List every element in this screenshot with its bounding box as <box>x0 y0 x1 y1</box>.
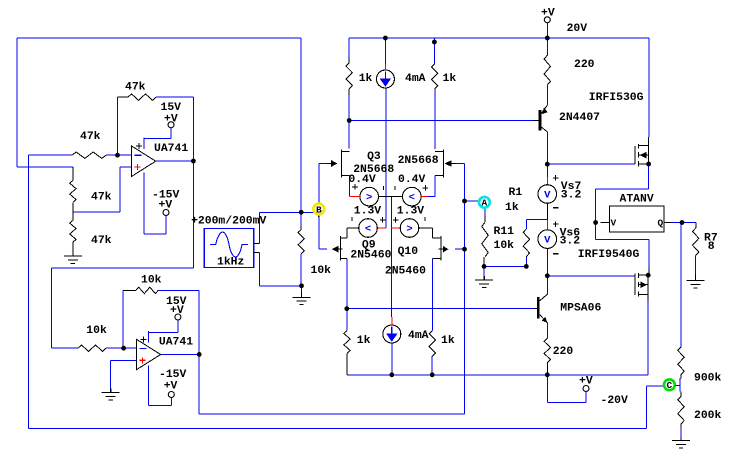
resistor 220 lower <box>544 338 550 374</box>
svg-text:4mA: 4mA <box>405 73 426 85</box>
svg-text:MPSA06: MPSA06 <box>560 303 601 315</box>
svg-text:>: > <box>366 192 372 204</box>
plus mark 0.4V left <box>352 184 358 190</box>
resistor R1 1k <box>523 229 529 257</box>
lead ATANV V port <box>601 222 610 224</box>
svg-text:10k: 10k <box>86 325 107 337</box>
label Q10 <box>398 246 419 258</box>
wire op1 inverting input <box>28 154 72 156</box>
lead red 1.3V right plus <box>392 227 401 229</box>
resistor R7 8 <box>693 223 699 256</box>
wire 1k to Q3 drain <box>348 38 350 58</box>
wire Q9 drain <box>346 258 348 308</box>
resistor 47k divider lower <box>70 212 76 242</box>
junction 1k Q5 load top <box>432 40 437 45</box>
op-amp U2 UA741 <box>137 331 161 378</box>
resistor 47k op1 feedback <box>118 94 157 100</box>
label 20V <box>567 23 588 35</box>
transistor M2 IRFI9540G <box>635 273 648 297</box>
svg-text:<: < <box>409 192 415 204</box>
label 900k <box>694 373 722 385</box>
label R7 <box>704 233 718 245</box>
svg-text:2N5460: 2N5460 <box>385 266 426 278</box>
lead M2 source black <box>648 268 650 276</box>
junction R11 ground node <box>482 264 487 269</box>
plus mark 0.4V right <box>423 185 429 191</box>
svg-text:V: V <box>544 190 551 202</box>
junction Q3 drain node <box>347 118 352 123</box>
wire net-B top-left loop <box>17 38 301 226</box>
label Q9 type 2N5460 <box>350 250 391 262</box>
svg-text:1.3V: 1.3V <box>354 205 382 217</box>
wire R1 top lead <box>526 220 528 229</box>
wire +20V rail <box>349 38 649 137</box>
transistor Q3 2N5668 <box>327 150 349 178</box>
svg-text:3.2: 3.2 <box>561 190 582 202</box>
power +V supply U2 negative <box>168 392 174 398</box>
label 10k node B <box>311 265 332 277</box>
svg-text:3.2: 3.2 <box>560 236 581 248</box>
wire Vs6 bottom lead <box>546 249 548 295</box>
label -15V U1 <box>152 190 180 202</box>
resistor 200k <box>678 392 684 429</box>
junction -20V rail 220 <box>545 372 550 377</box>
wire 4mA source 1 top <box>384 38 386 65</box>
junction M2 source-body <box>646 273 651 278</box>
svg-text:220: 220 <box>574 59 595 71</box>
label Q3 <box>367 151 381 163</box>
resistor 10k op2 input <box>78 345 106 351</box>
svg-text:-15V: -15V <box>152 190 180 202</box>
source V 0.4V left <box>360 187 379 206</box>
signal generator V1 box <box>204 228 254 267</box>
current source I2 4mA <box>383 325 401 343</box>
wire op2 output <box>161 353 200 355</box>
label 10k op2 input <box>86 325 107 337</box>
svg-text:IRFI530G: IRFI530G <box>589 92 644 104</box>
wire op1 feedback vertical <box>117 97 119 155</box>
junction R1 ground node <box>524 264 529 269</box>
resistor 900k <box>678 347 684 378</box>
svg-text:200k: 200k <box>694 410 722 422</box>
wire 200k to ground <box>680 427 682 437</box>
source Vs7 3.2 <box>538 185 557 204</box>
junction node B tap <box>299 210 304 215</box>
lead black Vs7 minus <box>546 203 548 219</box>
svg-text:0.4V: 0.4V <box>398 174 426 186</box>
resistor 47k op1 input <box>72 152 106 158</box>
wire Q3 source <box>349 176 351 197</box>
ground below 47k divider <box>64 242 82 263</box>
svg-text:Q10: Q10 <box>398 246 419 258</box>
wire U2 V+ pin <box>149 320 178 333</box>
pin Q ATANV <box>658 218 664 229</box>
wire op1 feedback to output <box>51 97 193 348</box>
resistor 1k Q10 load <box>429 331 435 356</box>
node B marker <box>313 204 324 216</box>
transistor Q2 MPSA06 <box>534 294 547 322</box>
svg-text:IRFI9540G: IRFI9540G <box>578 249 640 261</box>
lead red Vs7 plus <box>546 177 548 185</box>
wire ATANV V to IRFI9540G <box>596 223 649 268</box>
source Vs6 3.2 <box>538 230 557 249</box>
wire -20V supply tap <box>547 375 586 403</box>
svg-text:47k: 47k <box>91 192 112 204</box>
wire op2 noninverting input <box>111 360 137 362</box>
label Vs7 <box>561 181 582 193</box>
wire R11 ground lead <box>483 266 485 276</box>
wire 0.4V mid to 1.3V right <box>391 196 393 316</box>
ground below 200k <box>672 437 690 448</box>
junction -20V rail 4mA2 <box>389 372 394 377</box>
lead black 0.4V middle link <box>379 195 403 197</box>
svg-text:47k: 47k <box>125 82 146 94</box>
plus mark Vs7 <box>553 175 559 181</box>
wire 2N4407 collector node <box>546 132 548 164</box>
wire Q10 gate <box>455 248 465 250</box>
lead M1 drain black <box>648 137 650 145</box>
svg-text:15V: 15V <box>166 296 187 308</box>
svg-text:V: V <box>544 235 551 247</box>
power +V supply U2 positive <box>175 314 181 320</box>
label 15V U2 <box>166 296 187 308</box>
label 1k Q10 load <box>441 335 455 347</box>
svg-text:220: 220 <box>553 346 574 358</box>
svg-text:Q3: Q3 <box>367 151 381 163</box>
plus mark 1.3V right <box>393 217 399 223</box>
svg-text:1k: 1k <box>441 335 455 347</box>
wire R1 bottom lead <box>525 257 527 267</box>
label Q5 type 2N5668 <box>398 155 439 167</box>
svg-text:C: C <box>667 380 673 391</box>
label R1 <box>509 187 523 199</box>
label MPSA06 <box>560 303 601 315</box>
junction Q9 drain node <box>344 306 349 311</box>
junction M1 source-body <box>646 162 651 167</box>
wire net-B left vertical <box>17 38 73 167</box>
label ATANV <box>620 193 654 205</box>
wire op2 feedback to output <box>158 164 464 414</box>
wire Vs7 top lead <box>546 164 548 177</box>
resistor 1k Q5 load <box>431 64 437 89</box>
label 10k op2 feedback <box>141 275 162 287</box>
wire source output to node B <box>260 212 319 243</box>
signal generator sine wave <box>210 232 248 257</box>
label 220 lower <box>553 346 574 358</box>
svg-text:15V: 15V <box>161 102 182 114</box>
svg-text:1k: 1k <box>359 73 373 85</box>
svg-text:+V: +V <box>164 380 178 392</box>
label 47k divider lower <box>91 235 112 247</box>
wire 1k right bottom lead <box>431 356 433 375</box>
wire -20V rail <box>347 374 648 376</box>
lead red I1 <box>384 65 386 70</box>
wire Q5 source <box>428 176 435 197</box>
wire 900k top lead <box>680 223 682 348</box>
wire 1k to Q5 drain <box>433 38 435 64</box>
minus mark Vs7 <box>553 207 559 209</box>
label 1k Q9 load <box>357 335 371 347</box>
wire Q9 gate <box>319 248 327 250</box>
wire R1 to Vs junction <box>527 219 548 221</box>
svg-text:10k: 10k <box>494 240 515 252</box>
tick minus 0.4V right <box>394 186 396 190</box>
current source I1 4mA <box>376 70 394 88</box>
label +V U2 positive <box>170 305 184 317</box>
svg-text:R1: R1 <box>509 187 523 199</box>
label 4mA I1 <box>405 73 426 85</box>
plus mark Vs6 <box>553 221 559 227</box>
wire source return to ground <box>260 253 302 286</box>
label 1kHz <box>217 257 244 269</box>
wire Q3 gate <box>319 163 328 165</box>
label Vs7 value 3.2 <box>561 190 582 202</box>
resistor 1k Q9 load <box>344 331 350 375</box>
svg-text:2N5460: 2N5460 <box>350 250 391 262</box>
wire MPSA06 emitter lead <box>546 323 548 339</box>
svg-text:10k: 10k <box>311 265 332 277</box>
label Vs6 <box>560 228 581 240</box>
op-amp U1 UA741 <box>132 138 156 185</box>
svg-text:2N4407: 2N4407 <box>559 112 600 124</box>
wire IRFI530G source to ATANV <box>596 164 649 223</box>
lead black 1.3V left minus <box>347 228 358 238</box>
junction op1 inverting node <box>115 153 120 158</box>
transistor Q10 2N5460 <box>433 236 448 260</box>
svg-text:V: V <box>611 218 617 229</box>
lead red Vs6 plus <box>546 220 548 230</box>
svg-text:10k: 10k <box>141 275 162 287</box>
svg-text:1.3V: 1.3V <box>397 205 425 217</box>
wire op2 feedback vertical <box>122 290 124 348</box>
label -15V U2 <box>159 369 187 381</box>
svg-text:1k: 1k <box>357 335 371 347</box>
lead red 0.4V right plus <box>421 195 428 197</box>
minus mark Vs6 <box>553 253 559 255</box>
label R11 value 10k <box>494 240 515 252</box>
node A marker <box>479 197 490 209</box>
svg-text:A: A <box>482 198 488 209</box>
svg-text:2N5668: 2N5668 <box>398 155 439 167</box>
wire 10k bottom lead <box>300 254 302 291</box>
resistor 220 upper <box>544 55 550 85</box>
label Q3 type 2N5668 <box>353 164 394 176</box>
wire U1 V+ pin <box>144 128 171 139</box>
label 47k op1 input <box>80 131 101 143</box>
wire R11 R1 ground net <box>484 265 526 267</box>
lead node C right stub <box>676 378 680 392</box>
junction -20V rail 1k <box>430 372 435 377</box>
label 1.3V right <box>397 205 425 217</box>
wire Q5 gate <box>455 163 465 165</box>
lead M2 drain black <box>647 295 649 301</box>
svg-text:1k: 1k <box>505 202 519 214</box>
ground op2 noninverting <box>102 389 120 400</box>
label U1 <box>154 143 188 155</box>
label 2N4407 <box>559 112 600 124</box>
resistor R11 10k <box>482 209 488 267</box>
label 15V U1 <box>161 102 182 114</box>
transistor Q1 2N4407 <box>533 105 548 132</box>
ground below R7 <box>687 274 705 288</box>
power +V -20V supply <box>583 386 589 392</box>
power +V supply U1 positive <box>168 122 174 128</box>
lead node B tick <box>318 214 320 217</box>
wire 4mA source 2 bottom <box>391 343 393 375</box>
junction op1 output node <box>191 159 196 164</box>
wire 220 top lead <box>546 38 548 55</box>
wire op1 inverting input right <box>106 154 132 156</box>
junction source ground node <box>299 283 304 288</box>
power +V 20V supply <box>544 17 550 23</box>
svg-text:1kHz: 1kHz <box>217 257 244 269</box>
wire IRFI9540G gate <box>547 275 635 277</box>
label U2 <box>159 337 193 349</box>
lead red 1.3V left plus <box>378 227 387 229</box>
wire R7 bottom lead <box>695 256 697 275</box>
junction op2 output node <box>197 352 202 357</box>
wire 4mA source 1 output <box>385 88 387 228</box>
wire MPSA06 base wire <box>347 308 534 310</box>
label +200m/200mV <box>191 216 266 228</box>
lead red 0.4V left plus <box>350 195 360 197</box>
label 1.3V left <box>354 205 382 217</box>
source V 1.3V left <box>359 219 378 238</box>
label Q9 <box>362 240 376 252</box>
svg-text:0.4V: 0.4V <box>348 174 376 186</box>
wire Q3 drain <box>348 95 350 149</box>
wire IRFI530G gate <box>547 163 635 165</box>
label 47k divider upper <box>91 192 112 204</box>
wire node B gates vertical <box>318 164 320 250</box>
wire op1 noninverting input <box>73 167 132 212</box>
svg-text:1k: 1k <box>443 73 457 85</box>
wire IRFI9540G drain to rail <box>647 301 649 375</box>
resistor 10k node B <box>298 226 304 254</box>
power +V supply U1 negative <box>163 210 169 216</box>
wire 220 to 2N4407 emitter <box>546 85 548 105</box>
svg-text:47k: 47k <box>80 131 101 143</box>
svg-text:4mA: 4mA <box>408 330 429 342</box>
resistor 1k Q3 load <box>346 58 352 95</box>
node C marker <box>664 379 675 391</box>
wire Q3 drain to 2N4407 base <box>349 120 533 122</box>
label IRFI9540G <box>578 249 640 261</box>
svg-text:+V: +V <box>541 8 555 20</box>
wire op2 inverting input <box>106 347 137 349</box>
wire +20V supply lead <box>546 23 548 38</box>
wire node-C feedback bottom rail <box>28 155 663 428</box>
junction op2 inverting node <box>121 346 126 351</box>
label R1 value 1k <box>505 202 519 214</box>
wire 1k left to -20V rail <box>346 309 348 331</box>
source V 0.4V right <box>403 187 422 206</box>
label Q10 type 2N5460 <box>385 266 426 278</box>
svg-text:47k: 47k <box>91 235 112 247</box>
wire ATANV Q node <box>670 223 696 229</box>
transistor M1 IRFI530G <box>635 144 649 167</box>
wire Q5 drain <box>434 89 436 149</box>
svg-text:8: 8 <box>708 241 715 253</box>
label 1k Q5 load <box>443 73 457 85</box>
resistor 47k divider upper <box>70 167 76 212</box>
signal generator output stubs <box>254 243 260 252</box>
wire op2 noninverting to ground <box>110 361 112 389</box>
svg-text:+V: +V <box>579 376 593 388</box>
svg-text:900k: 900k <box>694 373 722 385</box>
label +V U1 positive <box>164 114 178 126</box>
wire U2 V- pin <box>149 377 172 406</box>
svg-text:Q: Q <box>658 218 664 229</box>
junction Q10 gate node <box>462 247 467 252</box>
svg-text:UA741: UA741 <box>154 143 188 155</box>
block U3 ATANV box <box>609 206 664 232</box>
wire op1 output <box>156 160 194 162</box>
lead black 1.3V right minus <box>419 228 433 238</box>
junction node A <box>462 199 467 204</box>
wire node A stub <box>465 200 480 202</box>
svg-text:-20V: -20V <box>601 395 629 407</box>
label R11 <box>494 226 515 238</box>
label IRFI530G <box>589 92 644 104</box>
label +V U2 negative <box>164 380 178 392</box>
label 47k op1 feedback <box>125 82 146 94</box>
label +V -20V <box>579 376 593 388</box>
resistor 10k op2 feedback <box>123 287 158 293</box>
label +V 20V <box>541 8 555 20</box>
svg-text:ATANV: ATANV <box>620 193 654 205</box>
svg-text:+V: +V <box>164 114 178 126</box>
svg-text:+200m/200mV: +200m/200mV <box>191 216 266 228</box>
label Vs6 value 3.2 <box>560 236 581 248</box>
svg-text:-15V: -15V <box>159 369 187 381</box>
label 220 upper <box>574 59 595 71</box>
junction ATANV V node <box>593 220 598 225</box>
lead ATANV Q port <box>664 222 671 224</box>
label 0.4V right <box>398 174 426 186</box>
svg-text:>: > <box>406 224 412 236</box>
junction 2N4407 collector node <box>545 162 550 167</box>
junction IRFI9540G gate node <box>545 273 550 278</box>
junction ATANV Q node <box>680 220 685 225</box>
svg-text:<: < <box>365 224 371 236</box>
plus mark 1.3V left <box>380 217 386 223</box>
label -20V <box>601 395 629 407</box>
tick minus 1.3V right <box>424 217 426 221</box>
tick minus 0.4V left <box>383 186 385 190</box>
wire U1 V- pin <box>144 184 166 234</box>
tick minus 1.3V left <box>351 217 353 221</box>
svg-text:20V: 20V <box>567 23 588 35</box>
source V 1.3V right <box>400 219 419 238</box>
svg-text:UA741: UA741 <box>159 337 193 349</box>
wire Q10 source <box>431 258 433 330</box>
junction +20V rail 4mA <box>383 36 388 41</box>
label 200k <box>694 410 722 422</box>
junction +20V rail 220 <box>545 36 550 41</box>
label R7 value 8 <box>708 241 715 253</box>
svg-text:B: B <box>316 204 322 215</box>
svg-text:R11: R11 <box>494 226 515 238</box>
label 4mA I2 <box>408 330 429 342</box>
transistor Q9 2N5460 <box>332 236 347 260</box>
ground below R11 <box>475 276 493 287</box>
pin V ATANV <box>611 218 617 229</box>
label 0.4V left <box>348 174 376 186</box>
label +V U1 negative <box>159 200 173 212</box>
ground below 10k node B <box>293 291 311 304</box>
lead red I2 <box>391 317 393 325</box>
